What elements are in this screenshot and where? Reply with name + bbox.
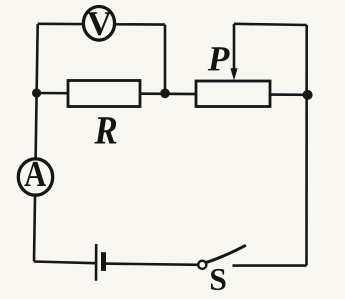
wire: bottom left horizontal from corner to battery [34, 262, 95, 264]
potentiometer wiper arrowhead [230, 68, 237, 80]
label S [211, 269, 226, 290]
resistor R body [68, 81, 140, 107]
voltmeter letter V [87, 12, 111, 35]
node C (right junction) [303, 90, 313, 100]
wire: battery to switch pivot [105, 264, 199, 265]
wire: top horizontal through voltmeter [38, 22, 165, 25]
wire: top horizontal of P loop [234, 24, 307, 25]
voltmeter V1 circle [83, 7, 114, 41]
ammeter letter A [24, 162, 46, 186]
wire: main horizontal through R and P (boxes cover middle) [37, 93, 308, 95]
wire: right vertical from P loop top through node C to bottom-right corner [305, 25, 308, 266]
ammeter A1 circle [18, 159, 52, 195]
battery long plate (positive) [95, 244, 98, 281]
node B (between R and P) [160, 89, 170, 99]
wire: switch right terminal to bottom-right corner [233, 264, 307, 267]
node A (left junction) [32, 88, 41, 97]
switch S pivot circle [198, 261, 206, 269]
wire: left vertical from top-left corner down through ammeter to bottom-left corner [34, 24, 38, 262]
battery short plate (negative) [101, 252, 106, 271]
label P [208, 47, 230, 70]
wire: potentiometer wiper stem [233, 24, 236, 70]
label R [94, 117, 116, 143]
switch S blade [206, 246, 245, 263]
potentiometer P body [196, 81, 270, 107]
wire: voltmeter loop right vertical down to node B [164, 25, 167, 94]
